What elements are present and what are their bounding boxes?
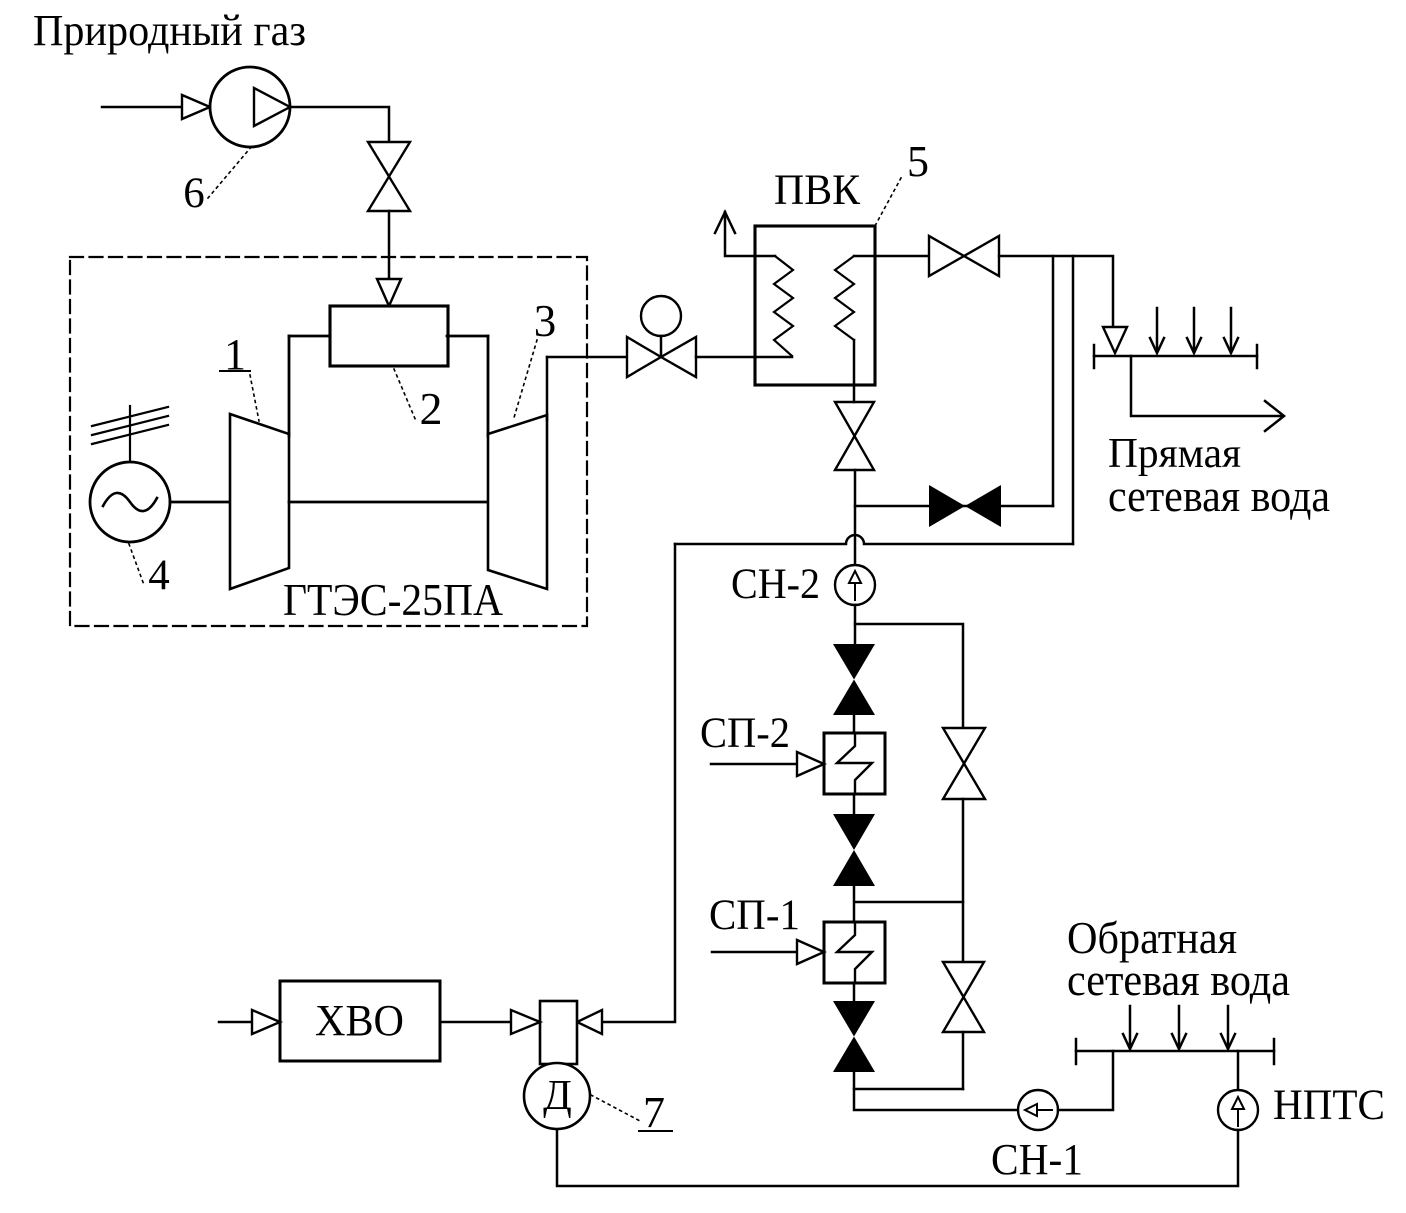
wire ХВО to deaerator: [440, 1021, 511, 1024]
wire turbine to control valve: [547, 356, 627, 359]
svg-text:сетевая вода: сетевая вода: [1108, 470, 1330, 521]
wire control valve to ПВК: [696, 356, 792, 359]
wire valve to combustion chamber: [388, 211, 391, 280]
wire supply out: [1131, 356, 1282, 416]
GT casing top left segment: [289, 335, 331, 338]
svg-text:5: 5: [907, 137, 929, 186]
leader dotted 3: [513, 340, 537, 421]
generator 4 circle: [90, 462, 170, 542]
bypass wire between valves: [962, 799, 965, 962]
return manifold arrow 2: [1178, 1006, 1181, 1047]
arrowhead into СП-1: [797, 940, 824, 964]
leader dotted 2: [394, 369, 416, 421]
ПВК vent wire: [725, 212, 775, 256]
wire F3 down and to СН-1: [854, 1072, 1018, 1110]
combustion chamber 2: [330, 306, 448, 366]
leader dotted 7: [591, 1095, 640, 1121]
GT casing top right segment: [447, 335, 488, 338]
wire F2 to СП-1: [853, 886, 856, 922]
pump НПТС circle: [1218, 1090, 1258, 1130]
pump НПТС arrow: [1237, 1110, 1239, 1126]
GT casing shaft line: [289, 501, 488, 504]
grid symbol above generator: [129, 406, 131, 463]
valve below ПВК (hollow bowtie vertical): [835, 402, 874, 436]
turbine exhaust pipe up: [546, 357, 549, 420]
return manifold: [1076, 1050, 1274, 1053]
supply manifold: [1094, 355, 1257, 358]
arrowhead into combustion chamber: [377, 279, 401, 306]
dashed box ГТЭС-25ПА: [70, 257, 587, 626]
underline of 1: [220, 370, 250, 372]
ПВК left coil: [774, 256, 793, 356]
leader dotted 5: [876, 178, 901, 224]
svg-text:ХВО: ХВО: [315, 996, 404, 1045]
svg-text:6: 6: [183, 170, 205, 217]
wire pump to valve: [854, 605, 857, 644]
svg-text:СП-1: СП-1: [709, 892, 800, 939]
wire НПТС to deaerator: [557, 1129, 1238, 1186]
deaerator Д circle: [524, 1063, 590, 1129]
wire to supply corner: [999, 256, 1113, 327]
crossing wire with hop: [675, 535, 1073, 544]
bypass valve V2 (hollow bowtie vertical): [943, 728, 985, 764]
wire F1 to СП-2: [853, 715, 856, 733]
compressor 1: [230, 414, 289, 589]
heater СП-1 zigzag: [837, 922, 872, 983]
bypass top branch wire: [855, 624, 963, 728]
supply manifold arrow 3: [1230, 308, 1233, 351]
wire ПВК column down: [853, 340, 856, 402]
control valve body: [627, 337, 661, 377]
ПВК outlet wire: [854, 255, 929, 258]
control valve actuator circle: [641, 296, 681, 336]
wire steam into СП-2: [711, 763, 797, 766]
svg-text:ГТЭС-25ПА: ГТЭС-25ПА: [283, 575, 503, 625]
GT casing right edge: [487, 336, 490, 436]
bypass valve V3 (hollow bowtie vertical): [943, 962, 984, 997]
bypass wire bottom: [962, 1032, 965, 1089]
ХВО box: [280, 981, 440, 1061]
ПВК boiler 5 box: [755, 226, 875, 385]
pump СН-1 circle: [1018, 1090, 1058, 1130]
pump СН-2 circle: [835, 565, 875, 605]
pump 6 (gas booster compressor) circle: [210, 67, 290, 147]
riser right A: [1052, 256, 1055, 506]
riser right B: [1072, 256, 1075, 544]
recirculation valve (filled bowtie): [929, 485, 965, 527]
deaerator column: [540, 1001, 577, 1064]
valve F1 (filled bowtie): [833, 644, 875, 680]
GT casing left edge: [288, 336, 291, 436]
wire into ХВО: [219, 1021, 252, 1024]
wire gas inlet: [102, 106, 182, 109]
ПВК right coil: [835, 256, 854, 340]
heater СП-1 box: [824, 922, 885, 983]
svg-text:Природный газ: Природный газ: [33, 6, 306, 55]
bypass bottom branch wire: [854, 1088, 963, 1091]
recirculation branch wire: [855, 505, 1053, 508]
ПВК vent arrowhead: [715, 212, 735, 233]
underline of 7: [639, 1130, 672, 1132]
heater СП-2 zigzag: [837, 733, 872, 794]
svg-text:3: 3: [534, 296, 557, 346]
svg-text:2: 2: [420, 383, 443, 434]
turbine 3: [488, 415, 547, 589]
svg-text:НПТС: НПТС: [1273, 1082, 1385, 1129]
pump СН-2 arrow: [854, 584, 856, 600]
valve F3 (filled bowtie): [833, 1001, 875, 1037]
svg-text:4: 4: [148, 552, 170, 599]
wire СП-2 to F2: [853, 794, 856, 814]
return manifold arrow 3: [1227, 1006, 1230, 1047]
control valve stem: [660, 336, 663, 357]
pump СН-1 arrow: [1037, 1109, 1052, 1111]
svg-text:Д: Д: [543, 1073, 572, 1119]
long left drop wire: [602, 544, 675, 1022]
arrowhead into ХВО: [252, 1010, 280, 1034]
svg-text:СП-2: СП-2: [700, 710, 790, 757]
arrowhead into СП-2: [797, 752, 824, 776]
valve after ПВК (hollow bowtie horizontal): [929, 236, 964, 276]
leader dotted 4: [129, 544, 144, 585]
valve F2 (filled bowtie): [833, 814, 875, 850]
arrowhead onto supply manifold: [1103, 327, 1127, 353]
bypass middle branch wire: [855, 901, 963, 904]
return manifold arrow 1: [1129, 1006, 1132, 1047]
leader dotted 6: [208, 146, 252, 198]
leader dotted 1: [250, 375, 259, 421]
svg-text:СН-2: СН-2: [731, 561, 820, 608]
arrowhead into deaerator left: [511, 1010, 540, 1034]
arrowhead gas inlet: [182, 95, 210, 119]
supply manifold arrow 1: [1156, 308, 1159, 351]
arrowhead supply out: [1265, 401, 1284, 431]
svg-text:7: 7: [643, 1088, 665, 1137]
svg-text:ПВК: ПВК: [774, 167, 860, 214]
supply manifold arrow 2: [1193, 308, 1196, 351]
svg-text:сетевая вода: сетевая вода: [1067, 954, 1290, 1005]
arrowhead into deaerator right: [577, 1010, 602, 1034]
wire manifold to НПТС: [1237, 1051, 1240, 1090]
wire pump6 to valve: [290, 107, 389, 142]
valve gas (hollow bowtie vertical): [368, 142, 410, 177]
generator sine wave: [103, 493, 157, 511]
pump 6 inner triangle: [254, 88, 290, 126]
heater СП-2 box: [824, 733, 885, 794]
svg-text:СН-1: СН-1: [991, 1135, 1083, 1184]
wire СП-1 to F3: [853, 983, 856, 1001]
wire СН-1 to return manifold: [1058, 1051, 1113, 1110]
shaft generator-compressor: [170, 501, 230, 504]
wire steam into СП-1: [712, 951, 797, 954]
